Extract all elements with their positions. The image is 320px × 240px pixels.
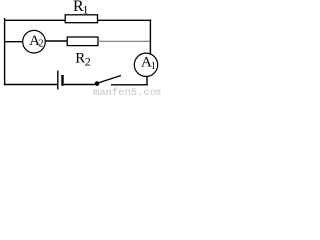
- svg-text:manfen5.com: manfen5.com: [93, 87, 161, 96]
- svg-text:1: 1: [151, 61, 156, 72]
- wire bottom-left to battery: [5, 84, 58, 86]
- ammeter A1: [134, 53, 157, 76]
- ammeter A2: [23, 30, 46, 53]
- wire switch contact to bottom-right corner: [111, 84, 148, 86]
- wire top-left to R1 left lead: [5, 19, 66, 21]
- svg-text:2: 2: [85, 55, 91, 69]
- wire R1 right lead to top-right corner: [98, 19, 152, 21]
- wire A2 to R2: [45, 40, 67, 42]
- wire left to ammeter A2: [5, 41, 24, 43]
- resistor R2: [67, 37, 98, 46]
- wire left vertical: [4, 18, 6, 85]
- wire A1 bottom to bottom-right corner: [146, 76, 148, 85]
- svg-text:2: 2: [39, 38, 44, 49]
- svg-text:1: 1: [83, 2, 89, 16]
- switch pivot dot: [95, 81, 100, 86]
- battery short plate: [61, 75, 63, 86]
- switch blade: [98, 76, 121, 84]
- wire right vertical top to A1: [149, 20, 151, 54]
- resistor R1: [65, 15, 97, 23]
- wire R2 to right vertical (gray): [98, 40, 150, 42]
- wire battery to switch: [64, 84, 95, 86]
- battery long plate: [57, 71, 59, 90]
